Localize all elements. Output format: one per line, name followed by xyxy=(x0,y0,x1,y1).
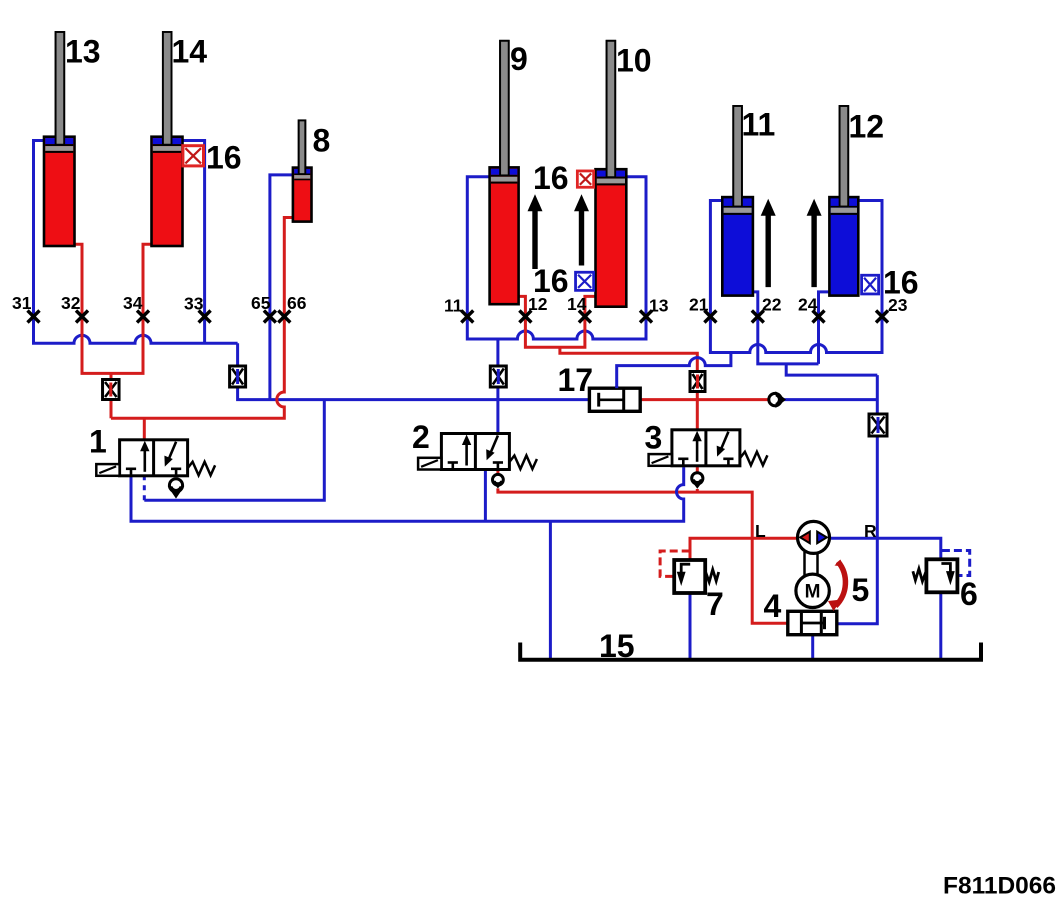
svg-text:14: 14 xyxy=(567,294,587,314)
svg-text:65: 65 xyxy=(251,293,271,313)
svg-text:31: 31 xyxy=(12,293,32,313)
svg-text:11: 11 xyxy=(444,296,463,316)
svg-text:3: 3 xyxy=(645,420,663,456)
svg-text:16: 16 xyxy=(533,160,569,196)
svg-text:23: 23 xyxy=(888,295,908,315)
svg-text:32: 32 xyxy=(61,293,81,313)
svg-text:16: 16 xyxy=(206,140,242,176)
svg-text:13: 13 xyxy=(649,296,669,316)
svg-text:9: 9 xyxy=(510,41,528,77)
svg-text:11: 11 xyxy=(742,107,776,143)
svg-text:15: 15 xyxy=(599,628,635,664)
svg-text:5: 5 xyxy=(852,572,870,608)
svg-text:12: 12 xyxy=(849,109,885,145)
svg-text:6: 6 xyxy=(960,576,978,612)
svg-text:21: 21 xyxy=(689,295,709,315)
svg-text:33: 33 xyxy=(184,294,204,314)
svg-text:4: 4 xyxy=(764,588,782,624)
svg-text:66: 66 xyxy=(287,293,307,313)
svg-text:12: 12 xyxy=(528,294,548,314)
svg-text:17: 17 xyxy=(558,362,594,398)
svg-text:8: 8 xyxy=(313,123,331,159)
svg-text:M: M xyxy=(805,582,821,603)
svg-text:L: L xyxy=(755,521,766,541)
svg-text:13: 13 xyxy=(65,34,101,70)
svg-text:22: 22 xyxy=(762,295,782,315)
svg-text:14: 14 xyxy=(172,34,208,70)
svg-text:1: 1 xyxy=(89,424,107,460)
svg-text:34: 34 xyxy=(123,293,143,313)
svg-text:F811D066: F811D066 xyxy=(943,873,1056,900)
svg-text:24: 24 xyxy=(798,295,818,315)
svg-text:2: 2 xyxy=(412,419,430,455)
svg-text:7: 7 xyxy=(706,586,724,622)
svg-text:10: 10 xyxy=(616,43,652,79)
svg-text:R: R xyxy=(864,521,877,541)
